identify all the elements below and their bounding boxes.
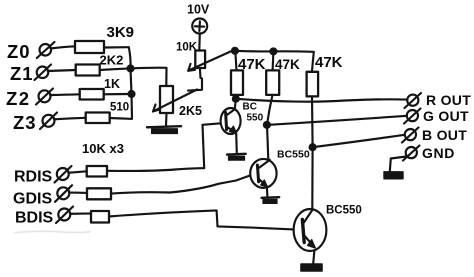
svg-text:BC550: BC550 — [277, 149, 310, 161]
transistor Q3 BC550 — [294, 205, 362, 252]
wire supply to VR1 — [198, 34, 201, 51]
wire Z2 connector to R3 — [50, 93, 79, 96]
wire Z3 connector to R4 — [54, 118, 86, 120]
node junction B (Q3 collector / B OUT) — [310, 144, 316, 150]
resistor R5 47K — [231, 56, 266, 95]
svg-text:BDIS: BDIS — [15, 210, 54, 227]
svg-text:10V: 10V — [187, 3, 210, 17]
node Z1 input connector — [35, 65, 52, 81]
svg-text:550: 550 — [247, 113, 264, 124]
node BDIS input connector — [56, 207, 73, 224]
svg-text:10K: 10K — [176, 42, 198, 54]
wire top supply rail — [231, 51, 314, 72]
wire R1 to bus top — [105, 46, 129, 48]
wire BDIS connector to R10 — [70, 212, 91, 214]
node GND connector — [403, 146, 420, 161]
svg-text:GND: GND — [422, 145, 455, 161]
svg-text:RDIS: RDIS — [14, 169, 53, 186]
wire Q1 emitter to ground — [235, 134, 238, 153]
node junction bus-Z2 — [129, 91, 135, 97]
node junction rail-R6 — [270, 48, 276, 54]
potentiometer VR1 10K body — [176, 42, 205, 69]
wire summing bus vertical — [129, 47, 132, 119]
ground below Q2 — [262, 197, 280, 203]
node Z2 input connector — [36, 89, 53, 105]
svg-text:47K: 47K — [315, 54, 343, 71]
wire VR1 bottom to VR2 wiper — [188, 68, 202, 91]
wire Z1 connector to R2 — [48, 70, 76, 71]
svg-text:1K: 1K — [104, 77, 120, 91]
wire R6 bottom to node G and Q2 collector — [267, 95, 273, 160]
node Z0 input connector — [37, 42, 55, 58]
svg-text:3K9: 3K9 — [107, 24, 135, 41]
resistor R2 2K2 — [76, 53, 124, 76]
node RDIS input connector — [55, 166, 72, 183]
power +10V supply symbol — [187, 3, 210, 34]
svg-text:2K5: 2K5 — [179, 104, 202, 118]
svg-text:G OUT: G OUT — [423, 108, 469, 124]
wire R3 to bus — [104, 93, 132, 95]
svg-text:BC: BC — [243, 102, 257, 113]
wire R7 bottom to node B and Q3 collector — [311, 96, 314, 209]
svg-text:10K x3: 10K x3 — [82, 141, 124, 156]
wire bus to VR2 top — [131, 68, 167, 86]
svg-text:Z1: Z1 — [10, 63, 34, 84]
transistor Q2 BC550 — [250, 149, 310, 188]
transistor Q1 BC550 — [221, 102, 264, 135]
wire R5 bottom to node R — [235, 95, 238, 99]
potentiometer VR2 wiper arrow — [153, 90, 197, 112]
wire Q3 emitter to ground — [313, 251, 314, 264]
node junction bus-Z1 — [128, 66, 134, 72]
svg-text:Z3: Z3 — [13, 112, 37, 133]
svg-text:Z0: Z0 — [7, 41, 31, 62]
wire B OUT line — [313, 135, 405, 147]
wire R4 to bus bottom — [110, 117, 132, 120]
ground at GND connector — [384, 172, 403, 179]
node B OUT connector — [402, 128, 419, 143]
resistor R8 10K — [87, 166, 107, 177]
wire VR2 bottom to ground — [165, 113, 168, 126]
ground below Q1 — [227, 154, 246, 160]
wire Q2 emitter to ground — [266, 187, 269, 196]
svg-text:47K: 47K — [238, 56, 266, 73]
wire GDIS to Q2 base — [111, 181, 236, 194]
node G OUT connector — [404, 109, 421, 124]
svg-text:47K: 47K — [275, 57, 300, 72]
svg-text:R OUT: R OUT — [426, 92, 471, 108]
node Z3 input connector — [40, 113, 57, 130]
wire Q2 base from GDIS — [236, 175, 250, 180]
wire Q1 collector to node R — [235, 99, 236, 110]
wire RDIS connector to R8 — [68, 171, 86, 173]
wire RDIS to Q1 base — [107, 123, 221, 171]
faint scan artifact line bottom left — [15, 231, 90, 232]
wire Z0 connector to R1 — [51, 46, 76, 48]
node R OUT connector — [405, 93, 422, 108]
resistor R9 10K — [87, 188, 111, 199]
node junction G (Q2 collector / G OUT) — [264, 122, 270, 128]
wire rail to R6 — [272, 51, 275, 70]
svg-text:BC550: BC550 — [326, 205, 362, 217]
wire BDIS to Q3 base — [109, 210, 294, 229]
resistor R3 1K — [80, 77, 120, 100]
wire rail to R5 — [235, 51, 236, 70]
wire R OUT line — [236, 99, 408, 102]
ground below Q3 — [301, 264, 322, 271]
svg-text:Z2: Z2 — [6, 88, 31, 109]
wire G OUT line — [267, 116, 407, 125]
svg-text:510: 510 — [110, 102, 129, 114]
resistor R7 47K — [307, 54, 343, 96]
svg-text:2K2: 2K2 — [100, 53, 124, 68]
potentiometer VR2 2K5 body — [160, 86, 202, 118]
svg-text:B OUT: B OUT — [422, 127, 467, 143]
resistor R4 510 — [86, 102, 129, 124]
resistor R6 47K — [266, 57, 300, 95]
resistor R10 10K — [91, 211, 109, 223]
potentiometer VR1 wiper arrow to top rail — [188, 52, 230, 71]
ground below VR2 — [147, 126, 181, 133]
wire R2 to bus — [100, 69, 131, 71]
node junction rail-R5 — [232, 48, 238, 54]
svg-text:GDIS: GDIS — [13, 191, 52, 208]
resistor R1 3K9 — [75, 24, 134, 53]
wire GDIS connector to R9 — [69, 192, 87, 194]
node junction R (Q1 collector / R OUT) — [233, 96, 239, 102]
node GDIS input connector — [55, 185, 72, 202]
wire GND connector to ground — [390, 157, 406, 172]
